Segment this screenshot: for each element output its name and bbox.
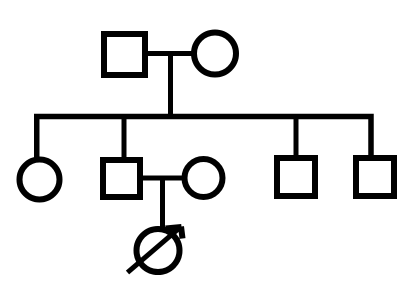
wire slash arrowhead left barb	[166, 227, 182, 229]
wire couple line I	[146, 51, 193, 56]
wire slash arrowhead lower barb	[181, 227, 183, 239]
square II-5	[356, 158, 394, 196]
wire drop to square II-2	[122, 114, 127, 158]
circle II-3 spouse	[185, 159, 223, 197]
square II-2	[103, 160, 140, 197]
wire descent line from couple I	[168, 51, 173, 118]
square I-1 father	[104, 34, 145, 75]
wire descent line from couple II	[160, 178, 165, 228]
circle II-1	[20, 160, 60, 200]
wire couple line II	[141, 176, 186, 181]
wire drop to square II-4	[294, 114, 299, 157]
circle I-2 mother	[194, 33, 236, 75]
square II-4	[277, 158, 315, 196]
wire sibship bar with end drops	[37, 117, 371, 159]
circle III-1 deceased	[137, 229, 180, 272]
wire deceased slash	[128, 228, 181, 273]
